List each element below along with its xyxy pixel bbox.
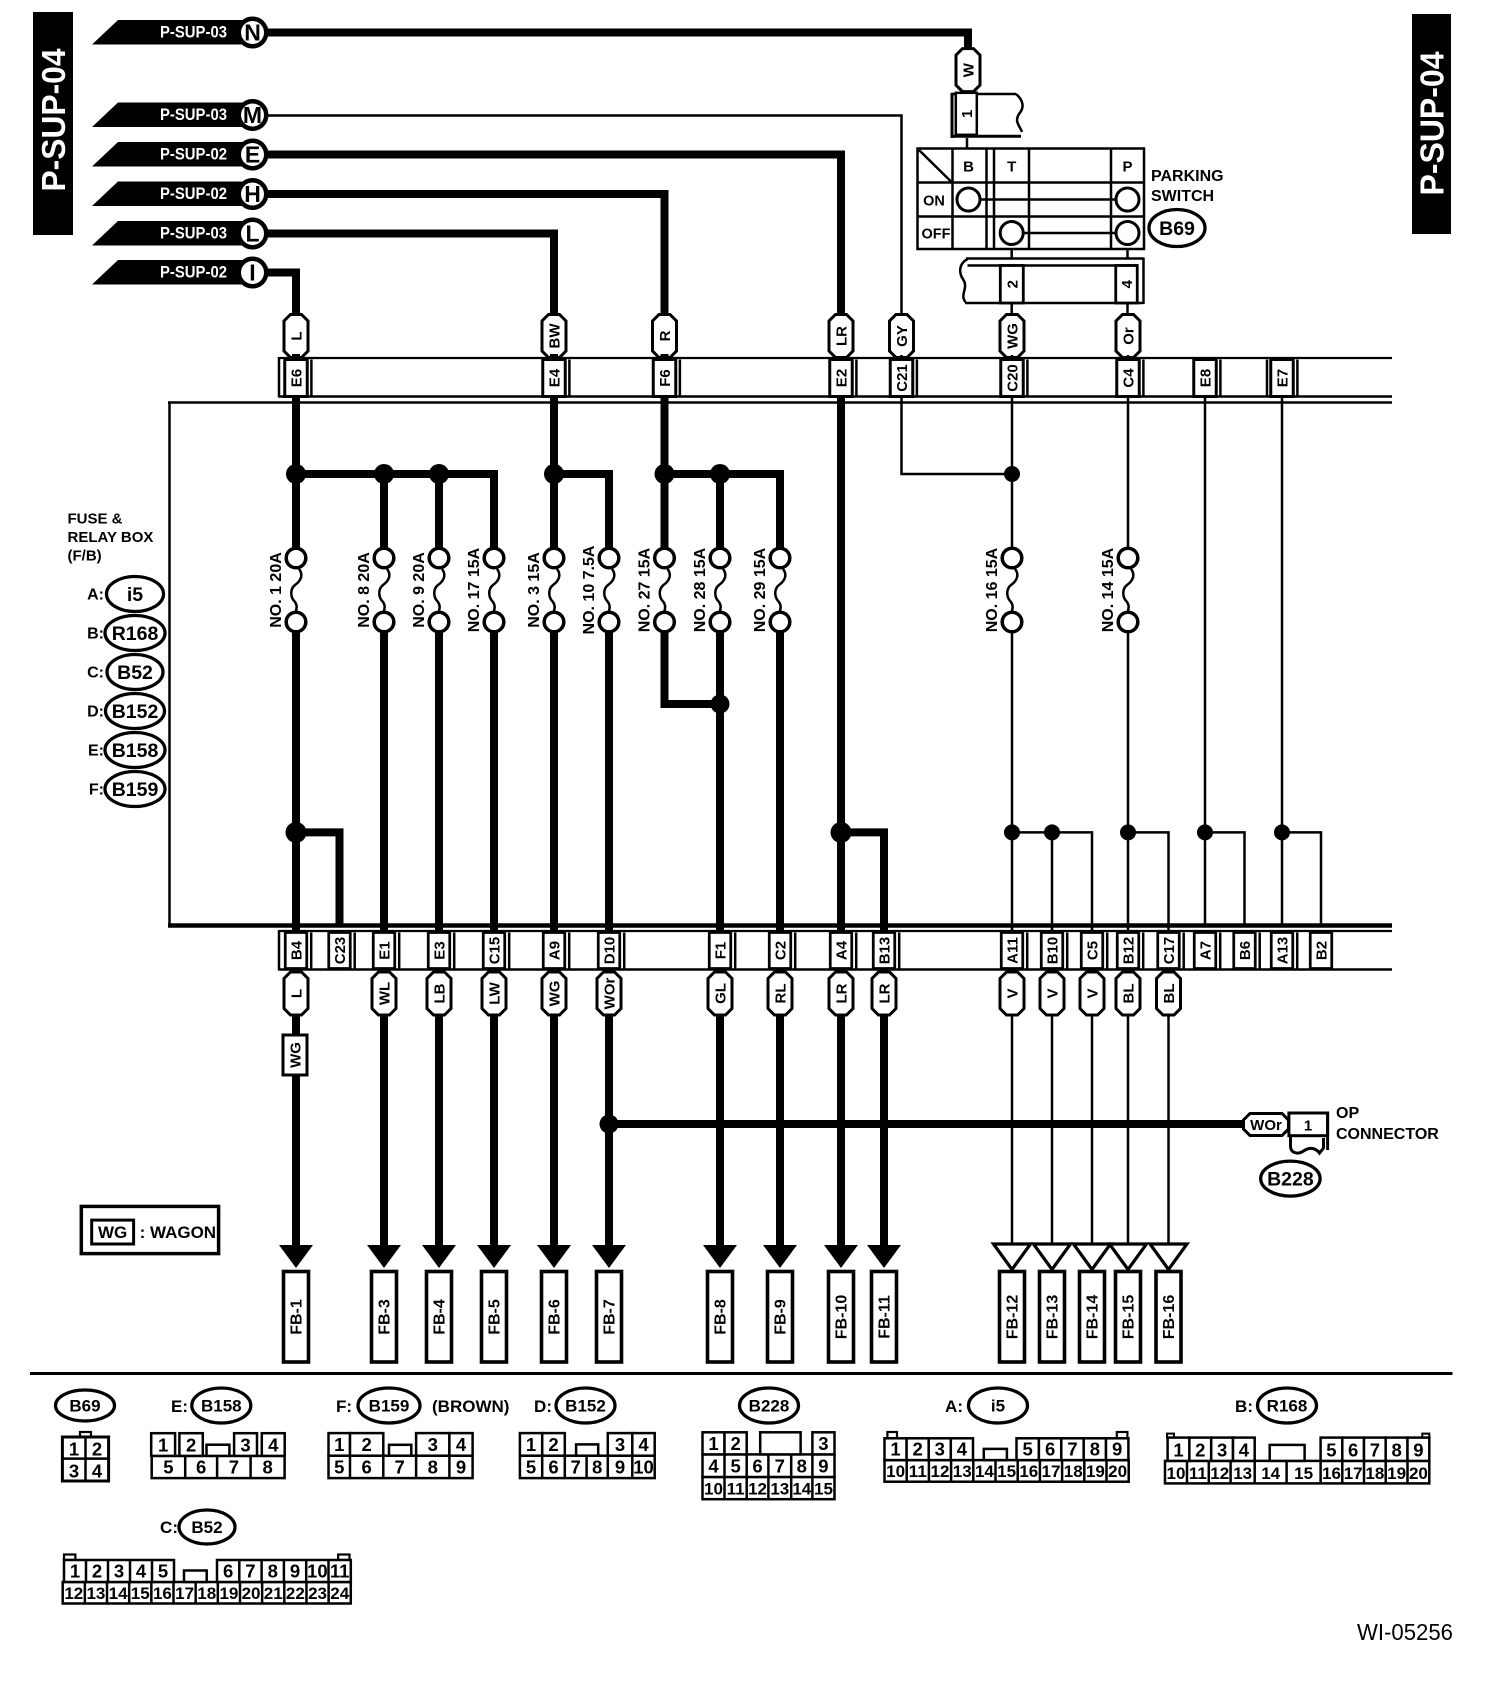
svg-text:P-SUP-03: P-SUP-03 — [160, 225, 227, 243]
svg-text:C2: C2 — [773, 941, 790, 960]
connector pin B10 — [1041, 933, 1063, 969]
svg-text:A:: A: — [945, 1397, 963, 1416]
wire E to E2/A4 — [266, 155, 841, 925]
wire to FB-14 — [1091, 1014, 1094, 1244]
wire to FB-13 — [1051, 1014, 1054, 1244]
svg-text:1: 1 — [526, 1434, 536, 1455]
svg-text:L: L — [245, 221, 259, 247]
svg-text:P-SUP-03: P-SUP-03 — [160, 24, 227, 42]
connector pin E1 — [373, 933, 395, 969]
connector pin C23 — [329, 933, 351, 969]
wire to FB-1 — [292, 1014, 300, 1247]
wire L drop — [292, 354, 300, 478]
svg-text:3: 3 — [615, 1434, 625, 1455]
fuse NO.3 15A — [544, 548, 564, 568]
svg-text:10: 10 — [1167, 1464, 1186, 1483]
svg-text:B159: B159 — [112, 779, 159, 801]
svg-text:17: 17 — [175, 1584, 194, 1603]
junction GY/WG — [1004, 466, 1020, 482]
connector pin A4 — [830, 933, 852, 969]
svg-text:B:: B: — [87, 626, 104, 643]
svg-text:B10: B10 — [1045, 937, 1062, 965]
svg-text:9: 9 — [615, 1457, 625, 1478]
svg-text:RELAY BOX: RELAY BOX — [68, 529, 154, 546]
svg-text:R168: R168 — [1267, 1397, 1308, 1416]
connector pin E7 — [1271, 360, 1294, 397]
svg-text:1: 1 — [1173, 1439, 1183, 1460]
svg-text:4: 4 — [1239, 1439, 1250, 1460]
fuse and relay box outline — [168, 401, 1392, 404]
svg-text:CONNECTOR: CONNECTOR — [1336, 1126, 1439, 1143]
svg-text:2: 2 — [186, 1434, 196, 1455]
wire color label BL — [1157, 972, 1181, 1015]
svg-text:B2: B2 — [1314, 941, 1331, 960]
connector pin grid R168 — [1167, 1434, 1174, 1438]
OP connector pin 1 — [1289, 1113, 1328, 1136]
svg-text:2: 2 — [92, 1561, 102, 1582]
fuse NO.9 20A — [429, 548, 449, 568]
page reference flag P-SUP-02 (I) — [92, 260, 253, 285]
svg-text:E7: E7 — [1275, 369, 1292, 387]
right page banner P-SUP-04 — [1412, 14, 1451, 234]
fuse box terminal FB-16 — [1156, 1272, 1181, 1363]
svg-text:20: 20 — [1108, 1462, 1127, 1481]
svg-text:A:: A: — [87, 587, 104, 604]
fuse box terminal FB-15 — [1116, 1272, 1141, 1363]
svg-text:B13: B13 — [877, 937, 894, 965]
connector pin grid B159 — [329, 1456, 473, 1478]
wire color label L — [284, 315, 308, 358]
wire H to F6 — [266, 194, 665, 316]
svg-text:ON: ON — [923, 194, 945, 210]
parking switch B69 — [918, 149, 1145, 250]
svg-text:C17: C17 — [1161, 937, 1178, 965]
svg-text:B152: B152 — [565, 1397, 606, 1416]
wire to FB-12 — [1011, 1014, 1014, 1244]
wire to FB-6 — [550, 1014, 558, 1247]
svg-text:B: B — [963, 159, 974, 176]
svg-text:: WAGON: : WAGON — [140, 1223, 217, 1242]
svg-text:B69: B69 — [69, 1397, 100, 1416]
wire color label R — [653, 315, 677, 358]
svg-text:N: N — [244, 20, 261, 46]
svg-text:D10: D10 — [602, 937, 619, 965]
svg-text:B69: B69 — [1159, 218, 1195, 240]
svg-text:C:: C: — [160, 1518, 178, 1537]
svg-text:B52: B52 — [191, 1518, 222, 1537]
svg-text:1: 1 — [959, 110, 976, 118]
wire color label LR — [872, 972, 896, 1015]
svg-text:11: 11 — [727, 1480, 745, 1499]
connector pin grid B69 — [80, 1432, 91, 1438]
svg-text:NO. 1 20A: NO. 1 20A — [268, 552, 285, 628]
svg-text:15: 15 — [814, 1480, 833, 1499]
svg-text:8: 8 — [797, 1456, 807, 1477]
connector pin A9 — [543, 933, 565, 969]
svg-text:NO. 16 15A: NO. 16 15A — [984, 547, 1001, 632]
svg-text:3: 3 — [935, 1439, 945, 1460]
svg-text:3: 3 — [114, 1561, 124, 1582]
svg-text:18: 18 — [1365, 1464, 1384, 1483]
svg-text:E: E — [245, 142, 260, 168]
svg-text:12: 12 — [931, 1462, 950, 1481]
wire to FB-8 — [716, 1014, 724, 1247]
svg-text:11: 11 — [1189, 1464, 1207, 1483]
svg-text:R168: R168 — [112, 623, 159, 645]
svg-text:16: 16 — [1322, 1464, 1341, 1483]
svg-text:8: 8 — [1090, 1439, 1100, 1460]
svg-text:22: 22 — [286, 1584, 305, 1603]
fuse box terminal FB-14 — [1080, 1272, 1105, 1363]
left page banner P-SUP-04 — [33, 12, 73, 235]
svg-text:9: 9 — [1112, 1439, 1122, 1460]
svg-text:20: 20 — [1409, 1464, 1428, 1483]
wire fuse9 out to E3 — [435, 631, 443, 924]
wire LR branch to B13 — [831, 822, 852, 843]
svg-text:6: 6 — [1348, 1439, 1358, 1460]
svg-text:F:: F: — [336, 1397, 352, 1416]
svg-text:C:: C: — [87, 665, 104, 682]
svg-text:E1: E1 — [377, 941, 394, 959]
svg-text:W: W — [961, 62, 978, 77]
svg-text:12: 12 — [1210, 1464, 1229, 1483]
svg-text:GY: GY — [894, 325, 911, 347]
svg-text:1: 1 — [334, 1434, 344, 1455]
fuse NO.8 20A — [374, 548, 394, 568]
wire color label LW — [482, 972, 506, 1015]
wire WG drop — [1011, 355, 1014, 549]
svg-text:C23: C23 — [332, 937, 349, 965]
svg-text:4: 4 — [92, 1461, 103, 1482]
connector pin A7 — [1194, 933, 1216, 969]
svg-text:16: 16 — [1019, 1462, 1038, 1481]
svg-text:SWITCH: SWITCH — [1151, 188, 1214, 205]
svg-text:15: 15 — [1294, 1464, 1313, 1483]
wire fuse17 out to C15 — [490, 631, 498, 924]
svg-text:6: 6 — [548, 1457, 558, 1478]
wire to FB-16 — [1167, 1014, 1170, 1244]
svg-text:B4: B4 — [289, 940, 306, 960]
svg-text:14: 14 — [792, 1480, 811, 1499]
wire to FB-5 — [490, 1014, 498, 1247]
svg-text:F6: F6 — [657, 369, 674, 387]
svg-text:4: 4 — [957, 1439, 968, 1460]
svg-text:GL: GL — [713, 983, 730, 1004]
svg-text:1: 1 — [890, 1439, 900, 1460]
wire to FB-9 — [776, 1014, 784, 1247]
svg-text:E3: E3 — [432, 941, 449, 959]
svg-text:WG: WG — [288, 1042, 305, 1068]
connector pin E8 — [1194, 360, 1217, 397]
svg-text:6: 6 — [196, 1457, 206, 1478]
wire E7 drop — [1281, 396, 1284, 833]
svg-text:5: 5 — [158, 1561, 168, 1582]
svg-text:H: H — [244, 181, 261, 207]
svg-text:2: 2 — [730, 1433, 740, 1454]
svg-text:B159: B159 — [369, 1397, 410, 1416]
wire color label WG — [542, 972, 566, 1015]
svg-text:12: 12 — [64, 1584, 83, 1603]
wagon option tag WG — [283, 1035, 307, 1075]
fuse box terminal FB-5 — [482, 1272, 507, 1363]
svg-text:P: P — [1122, 159, 1132, 176]
svg-text:FB-16: FB-16 — [1161, 1295, 1178, 1340]
svg-text:NO. 3 15A: NO. 3 15A — [526, 552, 543, 628]
svg-text:E6: E6 — [289, 369, 306, 387]
wire color label V — [1080, 972, 1104, 1015]
wire E8 to A7/B6 — [1197, 824, 1213, 840]
wire color label L — [284, 972, 308, 1015]
svg-text:FB-1: FB-1 — [289, 1299, 306, 1335]
wire Or drop — [1127, 355, 1130, 549]
connector pin C4 — [1117, 360, 1140, 397]
svg-text:14: 14 — [975, 1462, 994, 1481]
svg-text:7: 7 — [775, 1456, 785, 1477]
fuse box terminal FB-12 — [1000, 1272, 1025, 1363]
svg-text:A9: A9 — [547, 941, 564, 960]
svg-text:OFF: OFF — [922, 227, 951, 243]
fuse box terminal FB-3 — [372, 1272, 397, 1363]
svg-text:i5: i5 — [127, 584, 143, 606]
svg-text:E8: E8 — [1198, 369, 1215, 387]
svg-text:BW: BW — [547, 323, 564, 349]
svg-text:FB-9: FB-9 — [773, 1299, 790, 1335]
wire fuse16 out to A11/B10/C5 — [1011, 631, 1014, 924]
svg-text:4: 4 — [1119, 279, 1136, 288]
svg-text:6: 6 — [1045, 1439, 1055, 1460]
separator rule — [30, 1372, 1453, 1375]
fuse NO.1 20A — [286, 548, 306, 568]
connector ref B69 (bottom) — [56, 1390, 115, 1421]
svg-text:11: 11 — [909, 1462, 927, 1481]
svg-text:7: 7 — [571, 1457, 581, 1478]
svg-text:3: 3 — [428, 1434, 438, 1455]
svg-text:C21: C21 — [894, 364, 911, 392]
svg-text:P-SUP-02: P-SUP-02 — [160, 185, 227, 203]
svg-text:FB-11: FB-11 — [877, 1295, 894, 1339]
svg-text:13: 13 — [86, 1584, 105, 1603]
svg-text:2: 2 — [92, 1439, 102, 1460]
svg-text:NO. 29 15A: NO. 29 15A — [752, 547, 769, 632]
wire fuse27 out joins fuse28 — [665, 631, 721, 704]
svg-text:(F/B): (F/B) — [68, 548, 102, 565]
svg-text:PARKING: PARKING — [1151, 168, 1224, 185]
wire color label GL — [708, 972, 732, 1015]
switch contact OFF-T — [1000, 222, 1023, 245]
svg-text:7: 7 — [1067, 1439, 1077, 1460]
svg-text:FUSE &: FUSE & — [68, 511, 123, 528]
connector pin C2 — [769, 933, 791, 969]
svg-text:B152: B152 — [112, 701, 159, 723]
connector pin C17 — [1158, 933, 1180, 969]
svg-text:1: 1 — [69, 1439, 79, 1460]
svg-text:NO. 10 7.5A: NO. 10 7.5A — [581, 545, 598, 634]
svg-text:FB-8: FB-8 — [713, 1299, 730, 1335]
svg-text:14: 14 — [109, 1584, 128, 1603]
svg-text:NO. 9 20A: NO. 9 20A — [411, 552, 428, 628]
svg-text:19: 19 — [1086, 1462, 1105, 1481]
wire to FB-4 — [435, 1014, 443, 1247]
svg-text:LR: LR — [834, 326, 851, 346]
svg-text:A4: A4 — [834, 940, 851, 960]
wire fuse1 out to B4 — [292, 631, 300, 924]
svg-text:4: 4 — [136, 1561, 147, 1582]
svg-text:LR: LR — [834, 983, 851, 1003]
wire L feed bus — [296, 474, 494, 549]
svg-text:5: 5 — [1326, 1439, 1336, 1460]
svg-text:5: 5 — [730, 1456, 740, 1477]
svg-text:FB-7: FB-7 — [602, 1299, 619, 1335]
switch contact ON-B — [957, 188, 980, 211]
svg-text:7: 7 — [395, 1457, 405, 1478]
wire color label BL — [1116, 972, 1140, 1015]
page reference flag P-SUP-03 (L) — [92, 221, 253, 246]
connector pin C20 — [1001, 360, 1024, 397]
svg-text:Or: Or — [1121, 327, 1138, 345]
connector pin B12 — [1117, 933, 1139, 969]
parking switch connector pins 2,4 — [1010, 249, 1013, 259]
svg-text:6: 6 — [362, 1457, 372, 1478]
svg-text:V: V — [1045, 988, 1062, 998]
page reference flag P-SUP-03 (N) — [92, 20, 253, 45]
svg-text:FB-6: FB-6 — [547, 1299, 564, 1335]
wire color label GY — [890, 315, 914, 358]
svg-text:2: 2 — [548, 1434, 558, 1455]
svg-text:FB-15: FB-15 — [1121, 1295, 1138, 1340]
svg-text:F:: F: — [89, 782, 104, 799]
wire color label V — [1000, 972, 1024, 1015]
svg-text:8: 8 — [592, 1457, 602, 1478]
svg-text:E:: E: — [88, 743, 104, 760]
svg-text:8: 8 — [428, 1457, 438, 1478]
svg-text:V: V — [1005, 988, 1022, 998]
svg-text:7: 7 — [1370, 1439, 1380, 1460]
svg-text:23: 23 — [308, 1584, 327, 1603]
svg-text:WG: WG — [547, 981, 564, 1007]
svg-text:WG: WG — [98, 1223, 127, 1242]
svg-text:17: 17 — [1042, 1462, 1061, 1481]
svg-text:FB-4: FB-4 — [432, 1299, 449, 1335]
fuse NO.14 15A — [1118, 548, 1138, 568]
svg-text:9: 9 — [818, 1456, 828, 1477]
svg-text:A13: A13 — [1275, 937, 1292, 965]
svg-text:BL: BL — [1121, 984, 1138, 1004]
svg-text:15: 15 — [131, 1584, 150, 1603]
svg-text:12: 12 — [748, 1480, 767, 1499]
svg-text:WOr: WOr — [602, 978, 619, 1010]
wire to FB-11 — [880, 1014, 888, 1247]
svg-text:RL: RL — [773, 984, 790, 1004]
svg-text:2: 2 — [1195, 1439, 1205, 1460]
svg-text:13: 13 — [953, 1462, 972, 1481]
connector pin B4 — [285, 933, 307, 969]
svg-text:(BROWN): (BROWN) — [432, 1397, 509, 1416]
wire branch to C23 — [286, 822, 307, 843]
svg-text:19: 19 — [219, 1584, 238, 1603]
svg-text:B12: B12 — [1121, 937, 1138, 965]
svg-text:WL: WL — [377, 982, 394, 1005]
svg-text:B158: B158 — [112, 740, 159, 762]
connector pin A11 — [1001, 933, 1023, 969]
fuse NO.28 15A — [710, 548, 730, 568]
wire fuse10 out to D10 — [605, 631, 613, 924]
wire color label V — [1040, 972, 1064, 1015]
fuse box terminal FB-11 — [872, 1272, 897, 1363]
svg-text:NO. 27 15A: NO. 27 15A — [637, 547, 654, 632]
svg-text:9: 9 — [456, 1457, 466, 1478]
svg-text:1: 1 — [158, 1434, 168, 1455]
svg-text:6: 6 — [223, 1561, 233, 1582]
fuse box terminal FB-10 — [829, 1272, 854, 1363]
svg-text:LW: LW — [487, 981, 504, 1004]
svg-text:2: 2 — [913, 1439, 923, 1460]
svg-text:FB-13: FB-13 — [1045, 1295, 1062, 1340]
svg-text:WG: WG — [1005, 323, 1022, 349]
svg-text:WI-05256: WI-05256 — [1357, 1619, 1453, 1645]
fuse box terminal FB-4 — [427, 1272, 452, 1363]
svg-text:E:: E: — [171, 1397, 188, 1416]
svg-text:7: 7 — [245, 1561, 255, 1582]
page reference flag P-SUP-03 (M) — [92, 103, 253, 128]
svg-text:P-SUP-04: P-SUP-04 — [1414, 51, 1451, 196]
wire color label W — [956, 49, 980, 92]
svg-text:13: 13 — [1233, 1464, 1252, 1483]
svg-text:9: 9 — [1413, 1439, 1423, 1460]
svg-text:13: 13 — [770, 1480, 789, 1499]
svg-text:5: 5 — [334, 1457, 344, 1478]
connector pin E4 — [543, 360, 566, 397]
fuse NO.29 15A — [770, 548, 790, 568]
svg-text:4: 4 — [456, 1434, 467, 1455]
wire E7 to A13/B2 — [1274, 824, 1290, 840]
svg-text:1: 1 — [1304, 1118, 1312, 1135]
wire M to C21 — [266, 116, 902, 317]
svg-text:R: R — [657, 330, 674, 341]
wire fuse28 out to F1 — [716, 631, 724, 924]
svg-text:8: 8 — [262, 1457, 272, 1478]
svg-text:A7: A7 — [1198, 941, 1215, 960]
svg-text:3: 3 — [240, 1434, 250, 1455]
connector pin B13 — [873, 933, 895, 969]
svg-text:18: 18 — [197, 1584, 216, 1603]
svg-text:5: 5 — [1023, 1439, 1033, 1460]
fuse box terminal FB-8 — [708, 1272, 733, 1363]
svg-text:3: 3 — [1217, 1439, 1227, 1460]
connector ref B228 — [1261, 1161, 1320, 1196]
wire color label WG — [1000, 315, 1024, 358]
svg-text:21: 21 — [264, 1584, 283, 1603]
connector pin C15 — [483, 933, 505, 969]
wire WOr to OP connector — [600, 1115, 619, 1134]
connector pin grid B228 — [703, 1454, 835, 1477]
wire N to parking switch — [266, 33, 968, 51]
svg-text:NO. 14 15A: NO. 14 15A — [1100, 547, 1117, 632]
svg-text:FB-5: FB-5 — [487, 1299, 504, 1335]
svg-text:LR: LR — [877, 983, 894, 1003]
svg-text:10: 10 — [704, 1480, 723, 1499]
svg-text:C15: C15 — [487, 937, 504, 965]
wire color label Or — [1116, 315, 1140, 358]
svg-text:16: 16 — [153, 1584, 172, 1603]
connector ref B69 — [1149, 210, 1205, 247]
wire color label WOr — [597, 972, 621, 1015]
svg-text:OP: OP — [1336, 1105, 1359, 1122]
svg-text:V: V — [1085, 988, 1102, 998]
connector pin grid B152 — [520, 1456, 655, 1478]
svg-text:2: 2 — [1004, 280, 1021, 288]
connector pin E3 — [428, 933, 450, 969]
svg-text:B158: B158 — [201, 1397, 242, 1416]
